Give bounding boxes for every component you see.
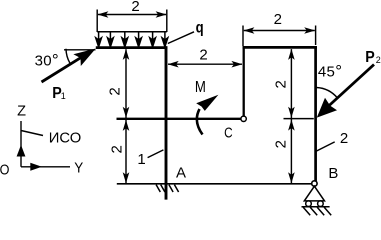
q leader line [168,32,194,44]
member 1 (left vertical bar) [165,46,168,199]
ground hatching at B [303,207,331,215]
svg-text:2: 2 [376,55,381,65]
dimension right vertical line [290,49,292,183]
axis Y line [21,166,70,168]
dimension right arrows [288,49,295,60]
svg-text:2: 2 [340,130,348,147]
svg-text:1: 1 [137,151,145,168]
dimension top-left line [98,14,166,16]
column above C [243,46,245,116]
svg-text:C: C [224,125,233,142]
dimension top-left ext line left [96,10,98,33]
svg-text:45°: 45° [318,62,342,81]
svg-text:q: q [196,20,204,37]
force P2 line [329,65,374,106]
svg-text:2: 2 [274,11,282,28]
30 degree arc [66,49,70,64]
dimension top-left ext line right [166,10,168,33]
bottom chord A-B [117,183,313,185]
svg-text:ИСО: ИСО [49,130,82,146]
axis Z arrowhead [17,145,26,157]
svg-text:2: 2 [273,80,290,88]
bar label 1 leader [148,150,164,158]
P1 baseline [64,49,96,51]
ground line at B [302,206,330,208]
dimension left vertical line [125,49,127,183]
dimension mid arrows [168,61,179,68]
fixed support hatching at member 1 base [156,185,179,192]
distributed load arrows [96,32,168,47]
svg-text:2: 2 [107,87,124,95]
ISO leader [21,131,43,136]
force P1 line [42,57,82,82]
ext tick mid right [284,118,314,120]
beam top-left (loaded beam) [96,46,168,49]
svg-text:2: 2 [109,145,126,153]
dimension top-left arrows [97,11,108,18]
svg-text:2: 2 [199,47,207,64]
45 degree arc [317,88,338,98]
hinge C [241,116,246,121]
dimension left arrows [123,49,130,60]
dimension mid line [168,63,242,65]
svg-text:Z: Z [17,104,26,120]
moment M arc [197,109,203,135]
support B triangle [304,186,324,201]
svg-text:P: P [365,49,375,66]
member 2 (right vertical bar) [314,46,317,181]
dimension top-right line [244,30,315,32]
dimension top-right ext line right [315,26,317,46]
axis Z line [20,121,22,167]
svg-text:2: 2 [272,140,289,148]
pin B circle [312,181,317,186]
svg-text:B: B [328,165,338,182]
moment M arrowhead [196,95,218,111]
dimension top-right ext line left [242,26,244,47]
svg-text:M: M [195,79,206,96]
svg-text:1: 1 [61,91,66,101]
svg-text:30°: 30° [35,50,59,69]
roller right [318,201,324,207]
svg-text:2: 2 [131,0,139,15]
svg-text:Y: Y [74,161,83,177]
distributed load q top line [97,31,167,33]
beam top-right [243,46,317,49]
bar label 2 leader [315,142,334,152]
roller left [306,201,312,207]
dimension top-right arrows [243,27,254,34]
force P1 arrowhead [73,49,95,67]
svg-text:A: A [176,165,186,182]
force P2 arrowhead [317,98,337,118]
mid horizontal member to C [117,118,242,120]
axis Y arrowhead [30,163,42,171]
svg-text:O: O [0,162,9,178]
